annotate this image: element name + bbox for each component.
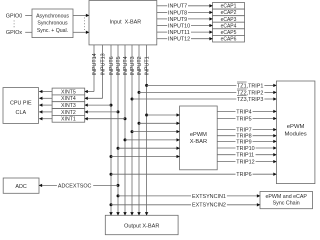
svg-text:TZ1,TRIP1: TZ1,TRIP1: [237, 83, 263, 89]
svg-text:INPUT9: INPUT9: [168, 17, 187, 23]
svg-text:XINT3: XINT3: [61, 103, 76, 109]
svg-text:Asynchronous: Asynchronous: [36, 13, 69, 19]
svg-text:X-BAR: X-BAR: [190, 139, 207, 145]
svg-text:INPUT10: INPUT10: [168, 23, 190, 29]
svg-text:INPUT6: INPUT6: [109, 56, 115, 75]
svg-text:TRIP6: TRIP6: [236, 172, 251, 178]
svg-text:XINT2: XINT2: [61, 110, 76, 116]
svg-text:eCAP5: eCAP5: [221, 30, 237, 36]
svg-text:TRIP7: TRIP7: [236, 128, 251, 134]
svg-text:eCAP6: eCAP6: [221, 37, 237, 43]
svg-text:Synchronous: Synchronous: [37, 21, 68, 27]
svg-text:INPUT14: INPUT14: [92, 53, 98, 75]
svg-text:CLA: CLA: [16, 110, 27, 116]
svg-text:ADC: ADC: [15, 184, 26, 190]
svg-text:XINT5: XINT5: [61, 89, 76, 95]
svg-text:Sync Chain: Sync Chain: [273, 201, 300, 207]
svg-text:TZ3,TRIP3: TZ3,TRIP3: [237, 97, 263, 103]
svg-text:EXTSYNCIN1: EXTSYNCIN1: [192, 194, 226, 200]
svg-text:INPUT5: INPUT5: [116, 56, 122, 75]
svg-text:TRIP12: TRIP12: [236, 160, 254, 166]
svg-text:GPIOx: GPIOx: [6, 30, 22, 36]
svg-text:TRIP5: TRIP5: [236, 116, 251, 122]
svg-text:INPUT2: INPUT2: [137, 56, 143, 75]
svg-text:XINT1: XINT1: [61, 117, 76, 123]
svg-text:CPU PIE: CPU PIE: [10, 100, 32, 106]
svg-text:ePWM and eCAP: ePWM and eCAP: [265, 194, 307, 200]
svg-text:INPUT13: INPUT13: [101, 53, 107, 75]
svg-text:INPUT12: INPUT12: [168, 37, 190, 43]
svg-text:TRIP10: TRIP10: [236, 146, 254, 152]
svg-text:EXTSYNCIN2: EXTSYNCIN2: [192, 203, 226, 209]
svg-text:INPUT3: INPUT3: [130, 56, 136, 75]
svg-text:Output X-BAR: Output X-BAR: [124, 224, 159, 230]
svg-text:TRIP9: TRIP9: [236, 139, 251, 145]
svg-text:ePWM: ePWM: [190, 132, 207, 138]
svg-text:INPUT7: INPUT7: [168, 4, 187, 10]
svg-text:INPUT4: INPUT4: [123, 56, 129, 75]
svg-text:ePWM: ePWM: [287, 124, 305, 130]
svg-text:INPUT1: INPUT1: [145, 56, 151, 75]
svg-text:XINT4: XINT4: [61, 96, 76, 102]
svg-text:Sync. + Qual.: Sync. + Qual.: [37, 28, 68, 34]
svg-text:TRIP11: TRIP11: [236, 153, 254, 159]
svg-text:INPUT11: INPUT11: [168, 30, 190, 36]
svg-text:GPIO0: GPIO0: [6, 13, 22, 19]
svg-text:Input X-BAR: Input X-BAR: [110, 19, 142, 25]
svg-text:Modules: Modules: [284, 132, 306, 138]
svg-text:INPUT8: INPUT8: [168, 10, 187, 16]
svg-text:TRIP4: TRIP4: [236, 109, 251, 115]
svg-text:ADCEXTSOC: ADCEXTSOC: [58, 183, 92, 189]
